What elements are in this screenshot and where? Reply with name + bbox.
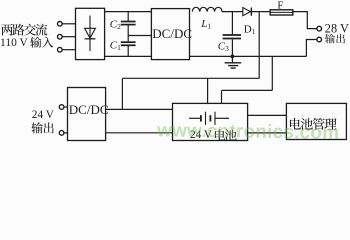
wire V3 bus down to battery plus	[207, 78, 209, 103]
wire 24V plus	[64, 106, 68, 108]
output terminal 24V minus	[59, 131, 64, 136]
wire H2 battery minus link	[222, 89, 273, 91]
ground	[225, 56, 242, 68]
capacitor C1	[121, 42, 136, 56]
svg-text:F: F	[277, 0, 283, 11]
input terminal 1	[58, 22, 63, 27]
svg-text:110 V: 110 V	[0, 37, 28, 49]
DC/DC converter block U1	[151, 9, 189, 60]
wire charge bus horizontal H1	[122, 77, 259, 79]
battery management block	[286, 103, 346, 139]
rectifier diode symbol	[85, 16, 96, 52]
capacitor C3	[223, 12, 241, 57]
svg-text:28 V: 28 V	[325, 21, 349, 35]
wire DC/DC2 lower link to battery	[106, 132, 173, 134]
output terminal 24V plus	[59, 105, 64, 110]
wire mid tap to DC/DC	[128, 35, 151, 37]
wire 28V minus terminal to negative rail	[306, 40, 317, 57]
wire L1 to D1	[222, 11, 243, 13]
svg-text:DC/DC: DC/DC	[69, 102, 109, 117]
wire node 28V down to charge bus	[258, 12, 260, 79]
svg-text:24 V: 24 V	[32, 109, 55, 121]
input terminal 3	[58, 47, 63, 52]
input terminal 2	[58, 34, 63, 39]
capacitor C2	[121, 12, 136, 42]
output terminal 28V minus	[317, 37, 322, 42]
wire V2 bus down to DC/DC2 input	[121, 78, 123, 109]
wire DC/DC2 input from battery	[106, 108, 173, 110]
DC/DC converter block U2	[68, 88, 106, 141]
svg-text:DC/DC: DC/DC	[152, 26, 192, 41]
label: 28 V output text	[325, 21, 349, 43]
wire input 2	[62, 36, 75, 38]
wire battery to management upper	[248, 114, 287, 116]
wire input 1	[62, 23, 75, 25]
svg-text:www.cntronics.com: www.cntronics.com	[156, 120, 339, 144]
wire battery to management lower	[248, 132, 287, 134]
wire input 3	[62, 49, 75, 51]
output terminal 28V plus	[317, 26, 322, 31]
diode D1	[243, 8, 252, 16]
rectifier block	[76, 8, 105, 59]
inductor L1	[192, 7, 222, 11]
fuse F	[270, 10, 293, 15]
junction dot C3/ground on negative rail	[231, 55, 235, 59]
battery block	[173, 103, 248, 140]
wire V4 down to battery	[221, 90, 223, 103]
wire 24V minus	[64, 132, 68, 134]
wire V5 up to negative rail	[271, 56, 273, 90]
battery symbol BT1	[189, 112, 229, 125]
label: AC input text 两路交流 110 V 输入	[0, 24, 53, 49]
wire D1 to fuse	[251, 11, 270, 13]
label: battery management text 电池管理	[290, 118, 337, 130]
wire negative rail DC/DC to output	[190, 55, 307, 57]
wire bottom rail rectifier to DC/DC	[105, 55, 152, 57]
wire top rail rectifier to DC/DC	[105, 11, 152, 13]
label: 24 V output text	[31, 109, 54, 134]
wire fuse to 28V plus terminal	[293, 12, 317, 29]
label: 24 V battery text	[190, 129, 237, 141]
